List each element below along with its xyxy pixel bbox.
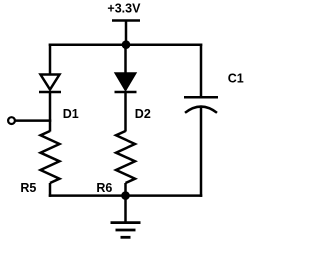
capacitor C1 [184,97,218,113]
svg-text:D1: D1 [63,107,79,121]
wire top rail [49,43,203,46]
diode D1 [39,75,61,93]
svg-text:C1: C1 [228,71,244,85]
power symbol +3.3V bar [112,19,140,22]
diode D2 [115,74,137,93]
wire R5 to bottom rail [49,183,52,197]
wire bottom rail [49,194,203,197]
wire D1 cathode to R5 [49,93,52,132]
wire R6 to bottom rail [124,183,127,196]
wire ground lead [124,196,127,223]
svg-text:R5: R5 [20,181,36,195]
wire C1 bottom lead [200,108,203,197]
resistor R5 [41,131,60,183]
svg-text:D2: D2 [135,107,151,121]
resistor R6 [116,131,135,183]
junction bottom node [121,191,130,200]
svg-text:R6: R6 [96,181,112,195]
wire D1 anode lead [49,44,52,76]
junction top node [122,40,131,49]
terminal input port [8,117,15,124]
wire D2 cathode to R6 [124,93,127,132]
wire power stem [125,20,128,47]
svg-text:+3.3V: +3.3V [107,2,141,16]
ground [111,223,141,238]
wire C1 top lead [200,44,203,98]
wire terminal to node [15,119,51,122]
wire D2 anode lead [124,44,127,75]
